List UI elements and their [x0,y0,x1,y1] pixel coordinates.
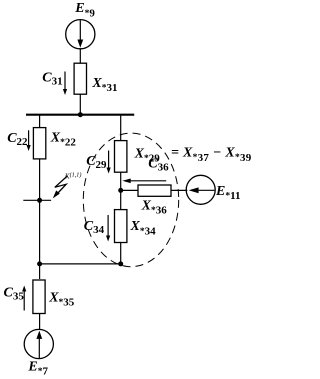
svg-text:C31: C31 [42,70,62,87]
junction node mid [118,188,123,193]
dashed equivalence ellipse [83,133,178,267]
svg-text:X*22: X*22 [50,130,77,148]
resistor X*36 box (horizontal) [138,185,171,196]
svg-text:C35: C35 [4,286,25,303]
junction node bottom right [118,261,123,266]
EMF source E9 circle [66,20,95,49]
wire node to X36 [121,189,138,191]
svg-text:X*36: X*36 [141,198,168,216]
svg-text:C34: C34 [84,219,105,236]
current arrow C29 (down) [107,151,111,174]
resistor X*29 box [115,141,127,173]
svg-text:E*7: E*7 [27,359,48,377]
resistor X*34 box [115,210,127,243]
lightning fault arrow [53,176,68,198]
resistor X*35 box [33,280,45,314]
EMF source E7 arrow (up) [36,331,42,359]
junction node bottom left [37,261,42,266]
wire X29 to X34 with mid node [120,172,122,209]
wire bus to X29 [120,115,122,141]
wire bus to X22 [39,115,41,128]
EMF source E7 circle [24,329,53,358]
svg-text:X*31: X*31 [91,76,117,94]
wire X34 to bottom node [120,243,122,264]
current arrow C22 (down) [27,130,31,151]
svg-text:K(1,1): K(1,1) [64,171,82,180]
svg-text:X*35: X*35 [48,290,75,308]
EMF source E11 circle [186,175,215,204]
EMF source E9 arrow (down) [77,20,83,48]
resistor X*31 box [74,63,86,94]
wire X35 to E7 [39,313,41,330]
bus bar [26,114,134,116]
current arrow C31 (down) [63,72,67,96]
wire X36 to E11 [171,189,187,191]
fault stub line [23,199,51,201]
resistor X*22 box [33,128,45,159]
wire X31 to bus [79,94,81,115]
EMF source E11 arrow (left) [189,187,215,193]
current arrow C34 (down) [106,215,110,242]
current arrow C35 (up) [22,286,26,311]
svg-text:X*34: X*34 [130,219,157,237]
svg-text:C22: C22 [7,131,28,148]
fault junction node [37,198,42,203]
bottom horizontal wire [40,263,121,265]
current arrow C36 (left) [122,179,166,184]
wire X22 down to bottom node [39,159,41,279]
junction node on bus [78,112,83,117]
svg-text:= X*37 − X*39: = X*37 − X*39 [171,146,252,164]
svg-text:E*9: E*9 [74,1,95,19]
svg-text:E*11: E*11 [215,184,241,202]
wire E9 to X31 [79,48,81,63]
